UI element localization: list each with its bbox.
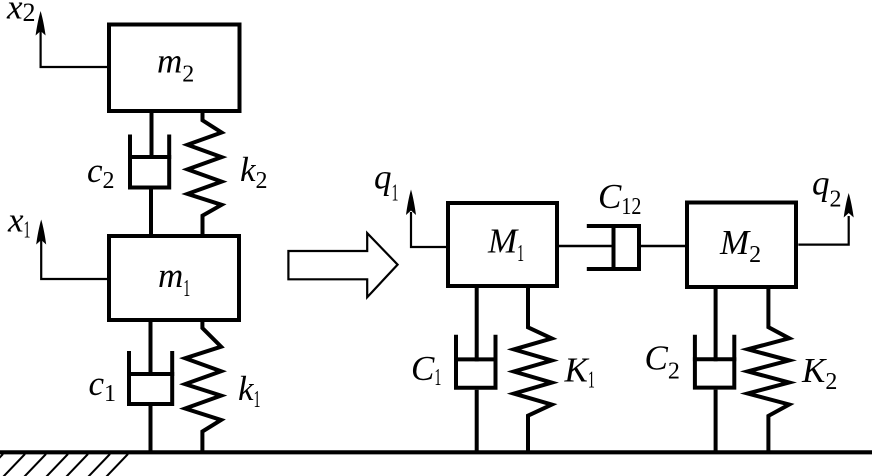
svg-text:x2: x2 [6,0,36,27]
